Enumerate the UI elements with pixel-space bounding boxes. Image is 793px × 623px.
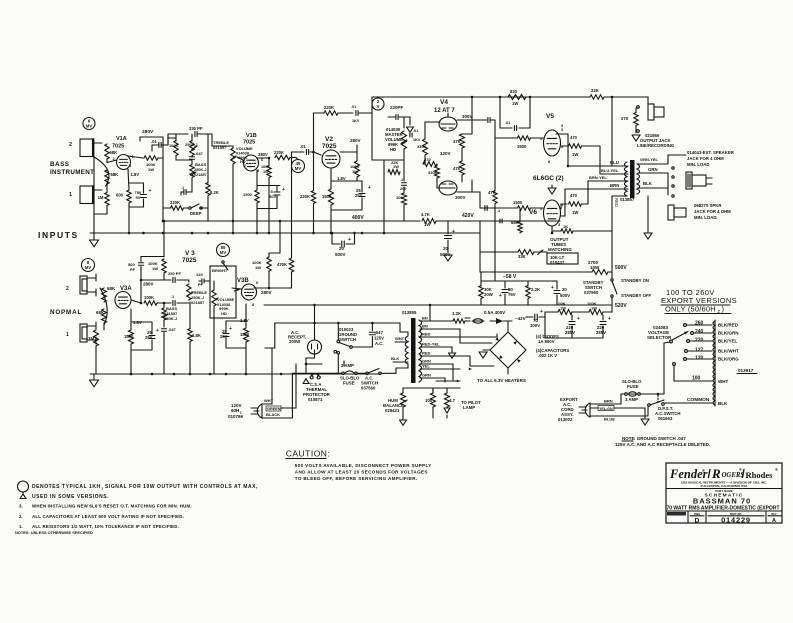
svg-text:.002 1K V: .002 1K V <box>538 353 557 358</box>
svg-text:CAUTION:: CAUTION: <box>286 449 331 459</box>
svg-text:RED: RED <box>614 198 619 207</box>
svg-text:33K: 33K <box>518 254 526 259</box>
svg-text:6: 6 <box>256 281 258 285</box>
svg-text:ONLY (50/60H: ONLY (50/60H <box>665 305 716 314</box>
svg-text:.01: .01 <box>413 129 418 133</box>
svg-text:1500: 1500 <box>240 332 250 337</box>
svg-text:BRN-YEL: BRN-YEL <box>589 175 607 180</box>
svg-text:1.2K: 1.2K <box>452 311 462 316</box>
svg-text:8.2K: 8.2K <box>210 190 219 195</box>
svg-text:AND ALLOW AT LEAST 20 SEC: AND ALLOW AT LEAST 20 SECONDS FOR VOLTAG… <box>295 470 428 475</box>
svg-text:7: 7 <box>244 164 246 168</box>
svg-text:037560: 037560 <box>361 386 376 391</box>
svg-text:7025: 7025 <box>243 140 255 146</box>
svg-text:+: + <box>499 293 502 299</box>
svg-text:BN: BN <box>422 324 428 329</box>
svg-text:100V: 100V <box>530 323 540 328</box>
svg-text:USED IN SOME VERSIONS.: USED IN SOME VERSIONS. <box>32 494 109 500</box>
svg-text:+: + <box>348 237 351 243</box>
svg-text:20W: 20W <box>484 292 494 297</box>
svg-text:V3A: V3A <box>120 286 132 292</box>
svg-text:280V: 280V <box>142 129 154 135</box>
svg-text:PF: PF <box>130 267 136 272</box>
svg-text:500 VOLTS AVAILABLE, DISCONN: 500 VOLTS AVAILABLE, DISCONNECT POWER SU… <box>295 463 432 468</box>
svg-text:z: z <box>102 487 104 491</box>
svg-text:BLK/ORG: BLK/ORG <box>718 357 739 362</box>
svg-text:+: + <box>282 187 285 193</box>
svg-text:500V: 500V <box>560 293 570 298</box>
svg-text:1W: 1W <box>572 152 578 157</box>
svg-text:028421: 028421 <box>385 408 400 413</box>
svg-text:GRN: GRN <box>422 373 431 378</box>
svg-text:2.2K: 2.2K <box>531 287 541 292</box>
svg-text:010766: 010766 <box>228 414 244 419</box>
svg-text:1W: 1W <box>393 164 399 169</box>
svg-text:LAMP: LAMP <box>463 405 475 410</box>
svg-text:+: + <box>156 328 159 334</box>
svg-text:285V: 285V <box>565 330 575 335</box>
svg-text:SELECTOR: SELECTOR <box>647 335 672 340</box>
svg-text:330K: 330K <box>417 144 427 149</box>
svg-text:V2: V2 <box>325 136 333 143</box>
svg-text:280V: 280V <box>261 290 272 295</box>
svg-text:1W: 1W <box>263 170 269 174</box>
svg-text:037960: 037960 <box>584 290 599 295</box>
svg-text:3: 3 <box>129 164 131 168</box>
svg-text:MV: MV <box>85 265 91 270</box>
svg-text:BRN: BRN <box>610 183 619 188</box>
svg-text:220PF: 220PF <box>390 105 404 110</box>
svg-text:ALL RESISTORS 1/2 WATT, 10%: ALL RESISTORS 1/2 WATT, 10% TOLERANCE IF… <box>32 524 179 529</box>
svg-text:+: + <box>452 229 455 235</box>
svg-text:Rhodes: Rhodes <box>746 470 774 480</box>
svg-text:1500: 1500 <box>513 200 523 205</box>
svg-text:BLU: BLU <box>610 160 619 165</box>
svg-text:V: V <box>377 104 380 109</box>
svg-text:BN: BN <box>422 316 428 321</box>
svg-text:+: + <box>540 309 543 315</box>
svg-text:TO ALL 6.3V HEATERS: TO ALL 6.3V HEATERS <box>477 378 526 383</box>
svg-text:BLU-YEL: BLU-YEL <box>601 168 619 173</box>
svg-text:WHT: WHT <box>395 336 405 341</box>
svg-text:068270 SPKR: 068270 SPKR <box>694 203 722 208</box>
svg-text:7025: 7025 <box>322 143 337 150</box>
svg-text:47K: 47K <box>488 190 496 195</box>
svg-text:125V A.C. AND A.C RECEPTACLE: 125V A.C. AND A.C RECEPTACLE DELETED. <box>615 442 710 447</box>
svg-text:GRN-YEL: GRN-YEL <box>640 157 659 162</box>
svg-text:100K: 100K <box>144 295 154 300</box>
svg-text:BLK: BLK <box>391 356 399 361</box>
svg-text:STANDBY OFF: STANDBY OFF <box>621 293 652 298</box>
svg-text:BLACK: BLACK <box>266 412 280 417</box>
svg-text:PF: PF <box>198 282 204 287</box>
svg-text:STANDBY ON: STANDBY ON <box>621 278 649 283</box>
svg-text:.1: .1 <box>400 178 403 182</box>
svg-text:280V: 280V <box>258 152 268 157</box>
svg-text:1W: 1W <box>572 210 578 215</box>
svg-text:.01: .01 <box>151 139 157 144</box>
svg-text:BRIGHT: BRIGHT <box>212 268 228 273</box>
svg-text:12 AT 7: 12 AT 7 <box>434 108 455 114</box>
svg-text:PART NAME: PART NAME <box>715 489 733 493</box>
svg-text:+: + <box>551 285 554 291</box>
svg-text:1.: 1. <box>19 524 23 529</box>
svg-text:1K: 1K <box>563 224 568 229</box>
svg-text:7025: 7025 <box>182 257 197 264</box>
svg-text:280V: 280V <box>350 138 361 143</box>
svg-text:INSTRUMENT: INSTRUMENT <box>50 169 94 176</box>
svg-text:8: 8 <box>548 160 550 164</box>
svg-text:600: 600 <box>116 193 124 198</box>
svg-text:100: 100 <box>425 398 433 403</box>
svg-text:75V: 75V <box>508 292 516 297</box>
svg-text:.01: .01 <box>505 121 510 125</box>
svg-text:2: 2 <box>113 157 115 161</box>
svg-text:6.8K: 6.8K <box>192 333 201 338</box>
svg-text:420V: 420V <box>462 213 474 219</box>
svg-text:68K: 68K <box>110 150 118 155</box>
svg-text:330 PF: 330 PF <box>189 126 203 131</box>
svg-text:+: + <box>608 316 611 322</box>
svg-text:220K: 220K <box>274 150 284 155</box>
svg-text:285V: 285V <box>596 330 606 335</box>
svg-text:4.7: 4.7 <box>449 398 456 403</box>
svg-text:.1: .1 <box>171 295 174 299</box>
svg-text:BLK/GRN: BLK/GRN <box>718 331 739 336</box>
svg-text:1KV: 1KV <box>352 119 360 123</box>
svg-text:8: 8 <box>252 303 254 307</box>
svg-text:A.C.: A.C. <box>375 341 384 346</box>
svg-text:0.5A 400V: 0.5A 400V <box>484 310 505 315</box>
svg-text:JACK FOR 4 OHM: JACK FOR 4 OHM <box>694 209 731 214</box>
svg-text:COMMON: COMMON <box>687 397 710 403</box>
svg-text:V3B: V3B <box>237 278 249 284</box>
svg-text:500V: 500V <box>335 252 346 257</box>
svg-text:MV: MV <box>295 166 301 171</box>
svg-text:+: + <box>368 185 371 191</box>
svg-text:3: 3 <box>558 223 560 227</box>
svg-text:2: 2 <box>69 142 72 148</box>
svg-text:A: A <box>772 518 776 524</box>
svg-text:HD: HD <box>221 311 227 316</box>
svg-text:2 AMP: 2 AMP <box>341 363 354 368</box>
svg-text:1W: 1W <box>591 306 597 311</box>
svg-text:280V: 280V <box>143 282 154 287</box>
svg-text:MV: MV <box>220 250 226 255</box>
svg-text:014043-EXT. SPEAKER: 014043-EXT. SPEAKER <box>687 150 735 155</box>
svg-text:INPUTS: INPUTS <box>38 230 79 240</box>
svg-text:1500: 1500 <box>124 334 134 339</box>
svg-text:FULLERTON, CALIFORNIA USA: FULLERTON, CALIFORNIA USA <box>701 484 749 488</box>
svg-text:1W: 1W <box>148 167 154 172</box>
svg-text:GREEN: GREEN <box>267 407 281 411</box>
svg-text:220K: 220K <box>170 200 180 205</box>
svg-text:MV: MV <box>86 124 92 129</box>
svg-text:200: 200 <box>400 187 406 191</box>
svg-text:260: 260 <box>695 321 704 327</box>
svg-text:1W: 1W <box>424 222 430 227</box>
svg-text:1W: 1W <box>560 306 566 311</box>
svg-text:1A 800V: 1A 800V <box>538 339 555 344</box>
svg-text:−58 V: −58 V <box>503 274 517 280</box>
svg-text:520V: 520V <box>615 303 627 309</box>
svg-text:250 PF: 250 PF <box>168 271 181 276</box>
svg-text:3 AMP: 3 AMP <box>625 397 638 402</box>
svg-text:270: 270 <box>621 116 629 121</box>
svg-text:1W: 1W <box>255 265 261 270</box>
svg-text:NOTE: NOTE <box>622 436 635 441</box>
svg-text:1.8V: 1.8V <box>337 176 346 181</box>
svg-text:22K: 22K <box>591 88 600 93</box>
svg-text:1W: 1W <box>152 266 158 271</box>
svg-text:250K-J: 250K-J <box>194 168 206 172</box>
svg-text:®: ® <box>775 467 778 472</box>
svg-text:250K-J: 250K-J <box>164 316 177 321</box>
svg-text:V1A: V1A <box>116 136 127 142</box>
svg-text:013857: 013857 <box>620 197 635 202</box>
svg-text:BLK/WHT: BLK/WHT <box>718 349 739 354</box>
svg-text:3: 3 <box>561 128 563 132</box>
svg-text:MIN. LOAD: MIN. LOAD <box>687 162 709 167</box>
svg-text:60H: 60H <box>231 408 239 413</box>
svg-text:GRN: GRN <box>648 167 658 172</box>
svg-text:470: 470 <box>570 135 578 140</box>
svg-text:100: 100 <box>692 376 701 382</box>
svg-text:RED: RED <box>422 332 431 337</box>
svg-text:021857: 021857 <box>194 173 207 177</box>
svg-text:1M: 1M <box>98 195 104 200</box>
svg-text:1500: 1500 <box>517 144 527 149</box>
svg-text:220K: 220K <box>324 105 334 110</box>
svg-text:BLK: BLK <box>718 401 728 406</box>
svg-text:V6: V6 <box>529 209 537 216</box>
svg-text:1: 1 <box>69 192 72 198</box>
svg-text:DENOTES TYPICAL 1KH: DENOTES TYPICAL 1KH <box>32 484 101 490</box>
svg-text:JACK FOR 4 OHM: JACK FOR 4 OHM <box>687 156 724 161</box>
svg-text:BASS: BASS <box>195 162 206 167</box>
svg-text:2.: 2. <box>19 514 23 519</box>
svg-text:+: + <box>577 316 580 322</box>
svg-text:6L6GC (2): 6L6GC (2) <box>533 175 564 182</box>
svg-text:D: D <box>695 517 700 524</box>
svg-text:330K: 330K <box>428 170 438 175</box>
svg-text:.1: .1 <box>497 209 500 213</box>
svg-text:021857: 021857 <box>191 300 205 305</box>
svg-text:HD: HD <box>390 147 396 152</box>
svg-text:3.: 3. <box>19 504 23 509</box>
svg-text:WHEN INSTALLING NEW 6L6'S: WHEN INSTALLING NEW 6L6'S RESET O.T. MAT… <box>32 504 192 509</box>
svg-text:+: + <box>149 188 152 194</box>
svg-text:YEL: YEL <box>422 364 430 369</box>
svg-text:4.7K: 4.7K <box>421 212 430 217</box>
svg-text:BLK: BLK <box>643 181 653 186</box>
svg-text:68K: 68K <box>111 172 119 177</box>
svg-text:1500: 1500 <box>322 194 332 199</box>
svg-text:BLK/YEL: BLK/YEL <box>718 339 738 344</box>
svg-text:.047: .047 <box>375 330 384 335</box>
svg-text:1: 1 <box>66 332 69 338</box>
svg-text:1W: 1W <box>512 101 518 106</box>
svg-text:500V: 500V <box>615 265 627 271</box>
svg-text:BRN: BRN <box>604 399 613 404</box>
svg-text:220K: 220K <box>300 194 310 199</box>
svg-text:50V: 50V <box>269 194 276 199</box>
svg-text:125V: 125V <box>374 336 384 341</box>
svg-text:NOTES: UNLESS OTHERWISE SPECIF: NOTES: UNLESS OTHERWISE SPECIFIED <box>15 530 93 535</box>
svg-text:.047: .047 <box>195 151 204 156</box>
svg-text:V 3: V 3 <box>185 250 195 257</box>
svg-text:R: R <box>711 466 721 481</box>
svg-text:WHT: WHT <box>718 379 728 384</box>
svg-text:010437: 010437 <box>550 260 565 265</box>
svg-text:BLUE: BLUE <box>604 417 615 422</box>
svg-text:1500: 1500 <box>243 192 253 197</box>
svg-text:V1B: V1B <box>246 133 257 139</box>
svg-text:300V: 300V <box>462 114 473 119</box>
svg-text:1W: 1W <box>352 169 358 174</box>
svg-text:SIGNAL FOR 10W OUTPUT WITH: SIGNAL FOR 10W OUTPUT WITH CONTROLS AT M… <box>105 484 258 490</box>
svg-text:240: 240 <box>695 329 704 335</box>
svg-text:300V: 300V <box>455 195 466 200</box>
svg-text:68K: 68K <box>96 310 105 315</box>
svg-text:100K: 100K <box>169 143 178 148</box>
svg-text:.047: .047 <box>168 327 177 332</box>
svg-text:: GROUND SWITCH .047: : GROUND SWITCH .047 <box>634 436 686 441</box>
svg-text:MATCHING: MATCHING <box>548 247 572 252</box>
svg-text:010871: 010871 <box>308 397 323 402</box>
svg-text:25V: 25V <box>355 193 363 198</box>
svg-text:.01: .01 <box>351 105 356 109</box>
svg-text:TO BLEED OFF, BEFORE SERVIC: TO BLEED OFF, BEFORE SERVICING AMPLIFIER… <box>295 476 418 481</box>
svg-text:NOPMAL: NOPMAL <box>50 309 82 316</box>
svg-text:BASS: BASS <box>50 161 70 168</box>
svg-text:1.8V: 1.8V <box>131 172 140 177</box>
svg-text:820: 820 <box>510 89 518 94</box>
svg-text:YEL-GN: YEL-GN <box>599 407 613 411</box>
svg-text:5V: 5V <box>136 195 141 200</box>
svg-text:SWITCH: SWITCH <box>339 337 356 342</box>
svg-text:6: 6 <box>261 158 263 162</box>
svg-text:061663: 061663 <box>658 416 673 421</box>
svg-text:68K: 68K <box>107 286 116 291</box>
svg-text:2: 2 <box>66 286 69 292</box>
svg-text:LINE/RECORDING: LINE/RECORDING <box>637 143 675 148</box>
svg-text:470: 470 <box>570 193 578 198</box>
svg-text:RED: RED <box>422 351 431 356</box>
svg-text:470K: 470K <box>277 262 287 267</box>
svg-text:200W: 200W <box>289 339 301 344</box>
svg-text:−42V: −42V <box>515 316 526 321</box>
svg-text:RED-YEL: RED-YEL <box>422 342 440 347</box>
svg-text:25V: 25V <box>145 335 153 340</box>
svg-text:013002: 013002 <box>558 417 573 422</box>
svg-text:.01: .01 <box>300 144 306 149</box>
svg-text:013917: 013917 <box>738 368 754 373</box>
svg-text:014229: 014229 <box>721 515 751 524</box>
svg-text:7025: 7025 <box>112 144 124 150</box>
svg-text:400V: 400V <box>352 215 364 221</box>
svg-text:V4: V4 <box>440 99 448 106</box>
svg-text:ALL CAPACITORS AT LEAST 60: ALL CAPACITORS AT LEAST 600 VOLT RATING … <box>32 514 184 519</box>
svg-text:V5: V5 <box>546 113 554 120</box>
svg-text:MIN. LOAD.: MIN. LOAD. <box>694 215 718 220</box>
svg-text:120: 120 <box>196 272 203 277</box>
svg-text:FUSE: FUSE <box>627 384 639 389</box>
svg-text:+: + <box>229 326 232 332</box>
svg-text:20: 20 <box>562 287 567 292</box>
svg-text:FUSE: FUSE <box>343 381 355 386</box>
svg-text:120V: 120V <box>440 151 451 156</box>
svg-text:20: 20 <box>339 246 345 251</box>
svg-text:®: ® <box>702 468 705 473</box>
svg-text:1KV: 1KV <box>413 138 421 142</box>
svg-text:BASSMAN 70: BASSMAN 70 <box>693 497 751 506</box>
svg-text:DEEP: DEEP <box>190 211 202 216</box>
svg-text:BLK/RED: BLK/RED <box>718 323 739 328</box>
svg-text:013895: 013895 <box>402 310 417 315</box>
svg-text:1M: 1M <box>88 336 95 341</box>
svg-text:.1: .1 <box>181 186 184 190</box>
svg-text:100: 100 <box>396 195 403 200</box>
